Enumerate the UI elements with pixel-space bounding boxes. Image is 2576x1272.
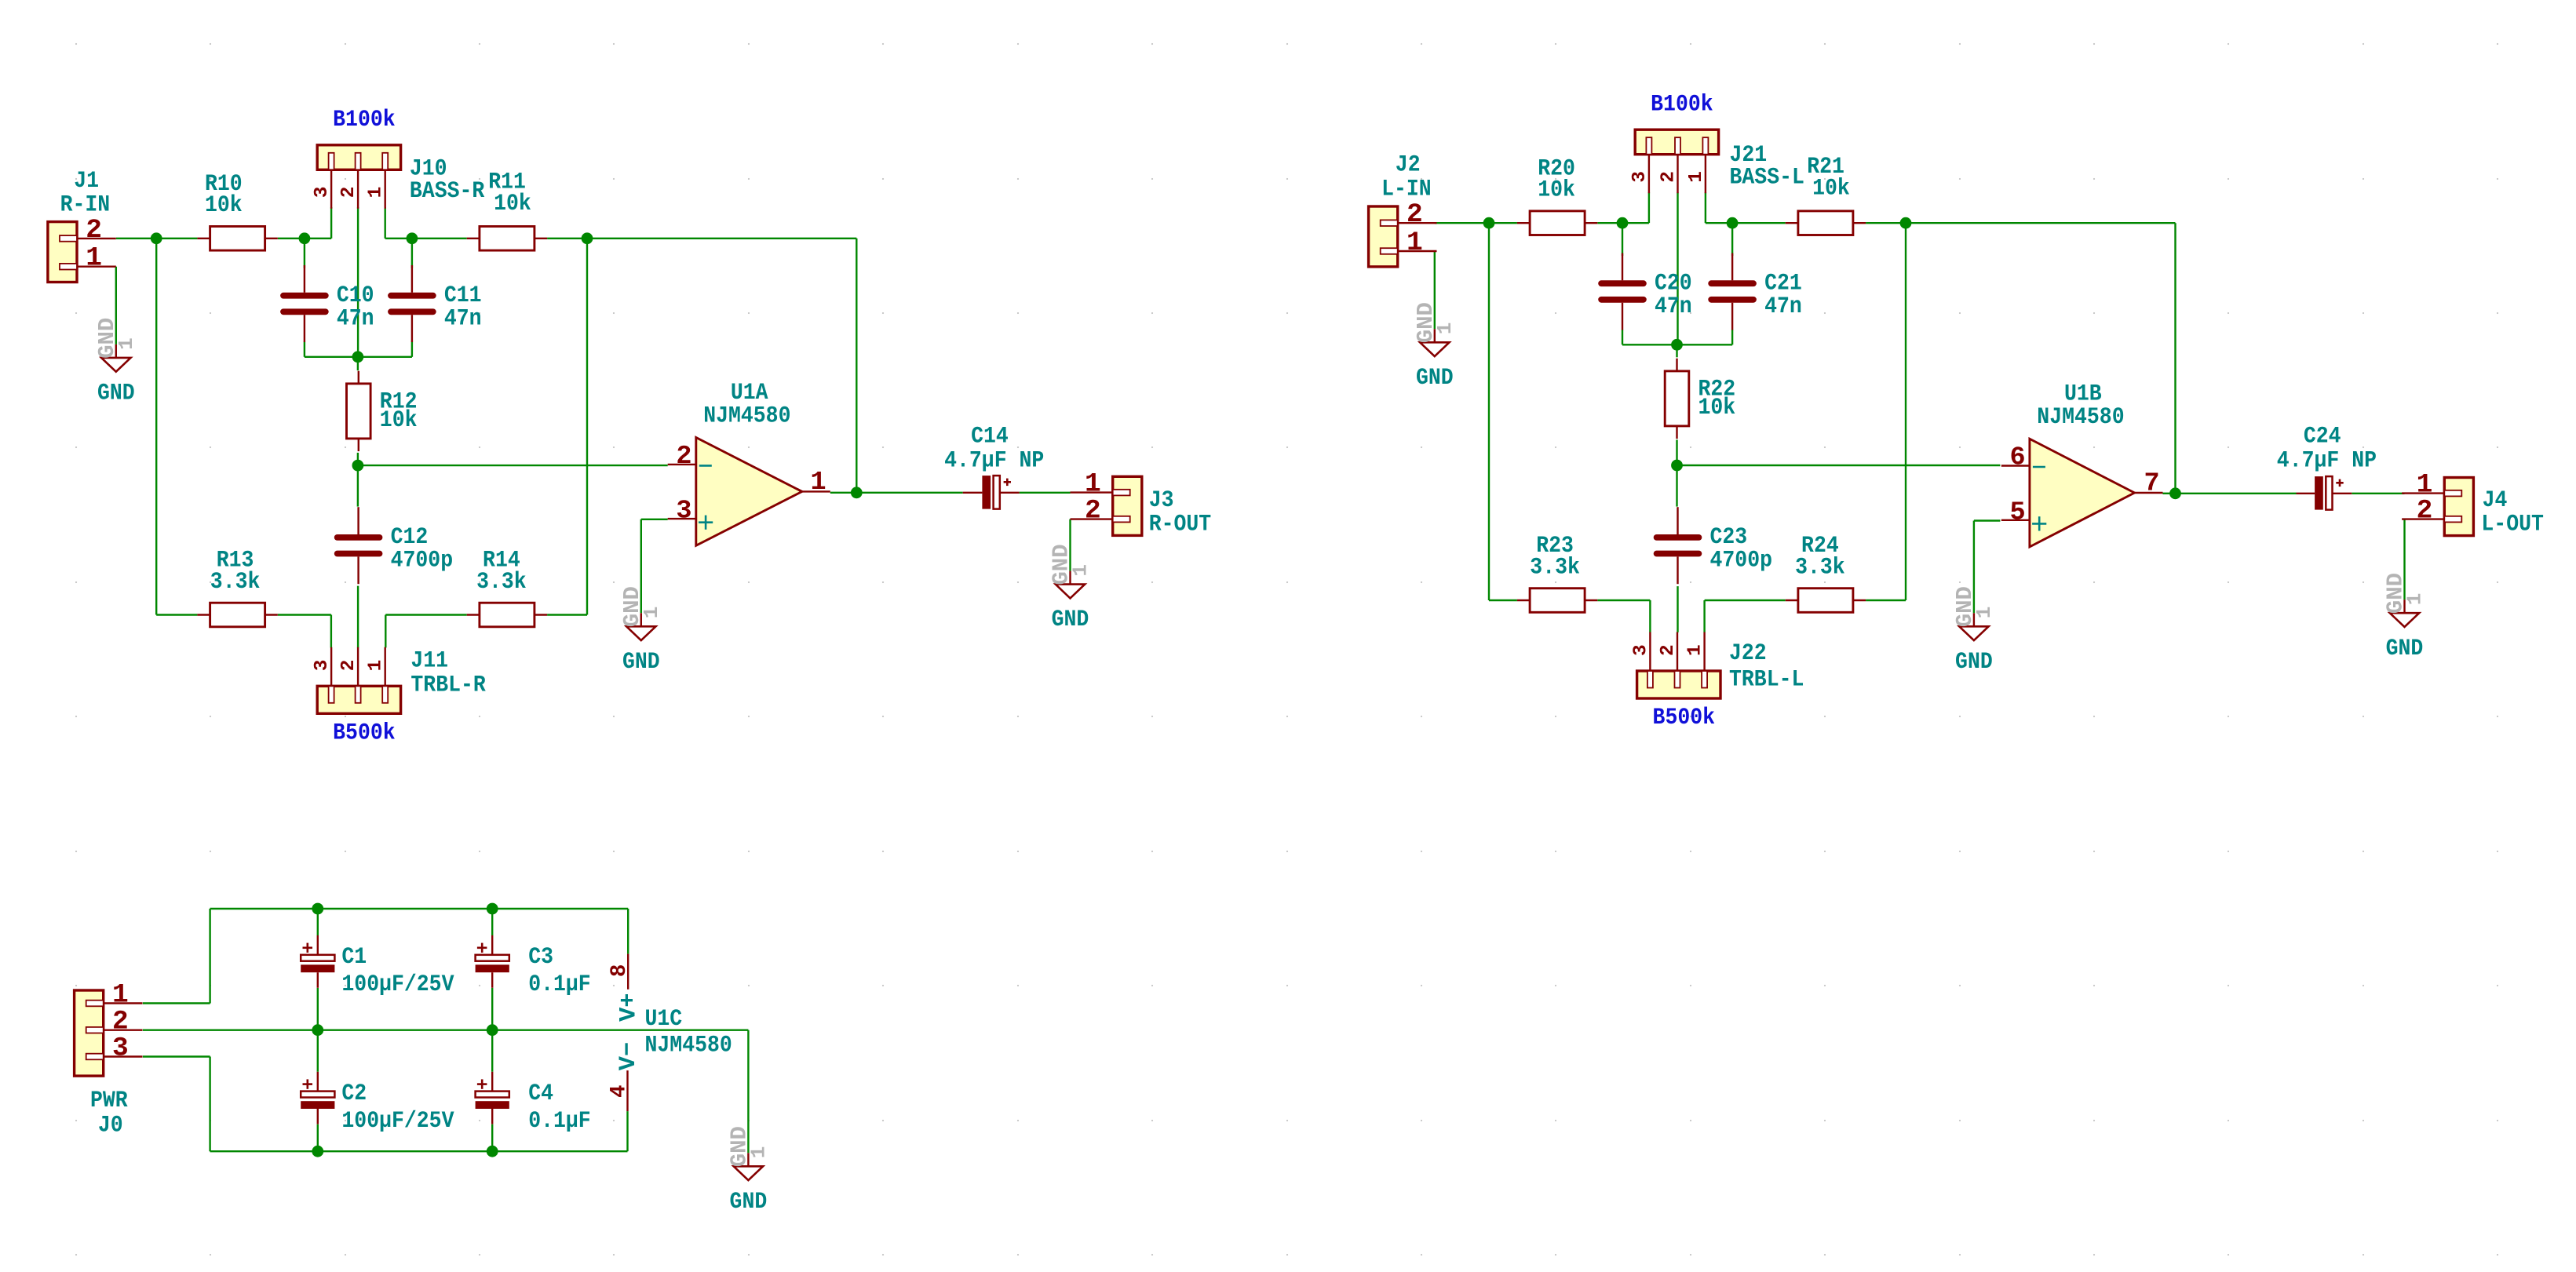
wire R13 to J11 pin3 corner [278,614,331,615]
svg-text:47n: 47n [444,305,482,332]
wire R21 to junction B2 [1866,222,1906,224]
svg-text:10k: 10k [380,406,418,433]
svg-text:47n: 47n [337,305,374,332]
svg-text:NJM4580: NJM4580 [703,403,790,429]
junction D2 at output [2169,487,2181,499]
svg-text:J3: J3 [1149,487,1174,513]
svg-text:8: 8 [608,964,632,978]
svg-text:1: 1 [2403,593,2427,606]
svg-text:GND: GND [622,648,660,675]
svg-text:47n: 47n [1655,293,1692,319]
wire junction D to C14 [856,492,962,494]
resistor R23 3.3k [1517,600,1530,601]
wire pin8 riser green [627,909,629,954]
svg-text:2: 2 [86,215,102,246]
svg-text:C4: C4 [528,1080,553,1106]
svg-text:10k: 10k [205,191,243,218]
svg-text:3.3k: 3.3k [1530,553,1580,580]
wire cap junction to R12 [357,357,359,370]
wire bus left segment [156,614,197,615]
wire J4 pin2 to ground [2403,519,2405,600]
svg-text:C2: C2 [341,1080,367,1106]
potentiometer connector J22 (J22) [1637,671,1720,698]
wire C10 vertical [304,239,305,268]
wire C10 junction to pot pin3 corner [305,238,331,239]
junction at C10 [299,232,311,244]
junction C1 bottom [312,1024,323,1036]
junction C2 bottom [312,1146,323,1157]
wire J0 pin1 to corner up [143,1002,210,1004]
svg-text:2: 2 [2417,496,2433,527]
wire junction C2 to U1B pin6 [1677,465,2001,466]
svg-text:2: 2 [1658,171,1680,183]
wire J2 pin1 to ground [1434,251,1436,329]
U1A plus sign [699,521,713,523]
svg-text:B100k: B100k [333,106,396,133]
wire pot pin1 corner to C11 junction [385,207,386,239]
resistor R21 10k [1786,222,1798,224]
svg-text:3: 3 [112,1033,129,1064]
svg-text:0.1µF: 0.1µF [528,1107,591,1134]
wire pot pin1 corner to C21 junction [1705,192,1706,223]
svg-text:3: 3 [312,660,333,672]
svg-text:1: 1 [640,607,663,619]
svg-text:4.7µF NP: 4.7µF NP [2277,446,2377,473]
wire U1B output to junction D2 [2163,493,2176,494]
resistor R14 3.3k [467,614,480,615]
svg-text:1: 1 [366,187,387,199]
wire C12 to J11 pin2 [357,586,359,648]
svg-text:1: 1 [1972,607,1996,619]
junction C3 top [487,903,498,915]
ground GND below J2 [1434,329,1436,342]
wire bus2 left segment [1489,600,1517,601]
junction C3 bottom [487,1024,498,1036]
svg-text:3: 3 [1629,171,1651,183]
resistor R11 10k [467,238,480,239]
wire pot pin2 down to cap junction [1677,192,1678,344]
svg-text:1: 1 [1069,564,1093,577]
resistor R13 3.3k [197,614,210,615]
wire J22 pin1 corner to R24 [1703,600,1705,632]
svg-text:GND: GND [730,1188,768,1215]
svg-text:V−: V− [615,1042,642,1070]
wire cap junction horizontal [305,356,412,358]
wire C2 verticals [317,1030,319,1072]
svg-text:4: 4 [608,1084,632,1098]
capacitor C11 47n [411,265,413,293]
svg-text:1: 1 [366,660,387,672]
wire R23 to J22 pin3 corner [1597,600,1650,601]
junction A [151,232,162,244]
svg-text:2: 2 [1658,644,1679,656]
svg-text:TRBL-L: TRBL-L [1729,666,1804,693]
svg-text:1: 1 [811,468,826,498]
capacitor C3 0.1µF [491,935,493,955]
wire R14 to feedback riser [547,614,587,615]
svg-text:TRBL-R: TRBL-R [410,672,485,698]
wire R22 to junction C2 [1676,439,1677,465]
svg-text:B500k: B500k [333,720,396,746]
junction at C20 [1617,217,1629,229]
wire C21 vertical [1731,223,1733,256]
wire C3 verticals [491,909,493,935]
svg-text:J0: J0 [98,1112,123,1139]
svg-text:10k: 10k [1538,177,1575,203]
wire junction D2 to C24 [2176,493,2297,494]
svg-text:GND: GND [1052,606,1089,632]
wire C14 to J3 pin1 [1020,492,1071,494]
svg-text:J4: J4 [2483,487,2508,513]
U1C pin 4 V- [626,1070,628,1111]
svg-text:B500k: B500k [1653,704,1716,731]
op-amp U1B (U1B NJM4580) [2030,439,2135,547]
svg-text:2: 2 [1085,496,1101,527]
svg-text:2: 2 [338,660,359,672]
svg-text:V+: V+ [616,993,643,1022]
C4 plus sign [477,1083,487,1085]
svg-text:100µF/25V: 100µF/25V [341,1107,454,1134]
wire U1B pin5 to ground corner [1974,519,2001,521]
capacitor C10 47n [304,265,305,293]
svg-text:3.3k: 3.3k [1795,553,1845,580]
wire J0 pin2 middle rail [143,1029,749,1030]
svg-text:GND: GND [1416,364,1454,391]
svg-text:B100k: B100k [1651,91,1713,118]
junction C2 below R22 [1671,460,1683,472]
svg-text:100µF/25V: 100µF/25V [341,971,454,997]
svg-text:J2: J2 [1396,151,1421,178]
svg-text:4.7µF NP: 4.7µF NP [944,446,1044,473]
U1C pin 8 V+ [627,954,629,990]
svg-text:C24: C24 [2304,423,2341,450]
svg-text:R-OUT: R-OUT [1149,511,1212,538]
U1B minus sign [2033,466,2045,468]
svg-text:3: 3 [312,187,333,199]
junction below caps right [1671,339,1683,351]
ground GND below J1 [115,344,117,358]
svg-text:4700p: 4700p [1710,547,1773,574]
svg-text:C14: C14 [971,423,1009,450]
wire U1A output to junction D [830,492,857,494]
wire R10 to C10 junction [278,238,305,239]
wire cap junction horizontal [1622,344,1732,345]
C2 plus sign [303,1083,313,1085]
svg-text:5: 5 [2010,498,2026,527]
svg-text:GND: GND [97,380,135,406]
wire pin4 riser green [626,1111,628,1151]
connector J1 (J1 R-IN) [48,222,77,282]
op-amp U1A (U1A NJM4580) [696,438,802,546]
wire junction A2 to R20 [1489,222,1517,224]
wire C11 vertical [411,239,413,268]
svg-text:3.3k: 3.3k [476,568,527,595]
wire junction A2 down to bottom bus [1488,223,1490,600]
svg-text:2: 2 [1407,199,1423,230]
C1 plus sign [303,947,313,949]
resistor R12 10k [358,371,359,384]
wire U1A pin3 to ground corner [641,519,668,520]
junction at C21 [1727,217,1739,229]
wire top-right corner down to output junction [856,239,857,493]
wire J1 pin1 to ground [115,267,117,344]
svg-text:10k: 10k [1812,174,1850,201]
capacitor C23 4700p [1677,507,1678,534]
svg-text:2: 2 [338,187,359,199]
svg-text:C1: C1 [341,943,367,970]
junction A2 [1483,217,1495,229]
svg-text:L-OUT: L-OUT [2481,511,2544,538]
svg-text:1: 1 [746,1146,770,1159]
potentiometer connector J10 (J10) [317,145,400,170]
wire bottom rail [210,1150,628,1152]
junction C1 top [312,903,323,915]
svg-text:1: 1 [112,980,129,1011]
svg-text:1: 1 [1685,644,1706,656]
junction C4 bottom [487,1146,498,1157]
wire junction B to top-right corner [587,238,856,239]
svg-text:4700p: 4700p [391,547,453,574]
potentiometer connector J21 (J21) [1635,129,1718,155]
wire middle rail corner down to ground [747,1030,749,1154]
connector J3 (J3 R-OUT) [1113,476,1142,535]
junction C below R12 [352,460,364,472]
svg-text:10k: 10k [1698,394,1736,421]
svg-text:6: 6 [2010,443,2026,473]
svg-text:U1C: U1C [645,1005,683,1032]
svg-text:3.3k: 3.3k [210,568,261,595]
capacitor C20 47n [1622,253,1623,281]
ground GND below J4 [2403,600,2405,613]
svg-text:J22: J22 [1729,640,1767,666]
wire C20 vertical [1622,223,1623,256]
wire C23 to J22 pin2 [1677,586,1678,632]
connector J2 (J2 L-IN) [1369,206,1398,267]
capacitor C4 0.1µF [491,1072,493,1092]
wire C20 junction to pot pin3 corner [1622,222,1649,224]
svg-text:10k: 10k [494,190,531,217]
wire junction A to R10 [156,238,197,239]
svg-text:L-IN: L-IN [1381,175,1432,202]
junction below caps [352,351,364,363]
wire cap junction to R22 [1676,344,1677,357]
junction B2 feedback [1900,217,1912,229]
resistor R24 3.3k [1786,600,1798,601]
capacitor C1 100µF/25V [317,935,319,955]
C24 plus sign [2336,482,2343,484]
wire C4 verticals [491,1030,493,1072]
svg-text:J11: J11 [410,647,448,673]
svg-text:BASS-R: BASS-R [410,177,484,204]
wire C24 to J4 pin1 [2352,493,2404,494]
resistor R20 10k [1517,222,1530,224]
svg-text:1: 1 [1433,323,1457,335]
svg-text:7: 7 [2144,468,2160,498]
svg-text:C3: C3 [528,943,553,970]
ground GND below U1A [640,613,642,626]
wire pot pin2 down to cap junction [357,207,359,357]
svg-text:3: 3 [676,497,691,527]
wire J1 pin2 to junction A [116,238,156,239]
wire R11 to feedback junction B [547,238,587,239]
wire junction C to U1A pin2 [358,465,668,466]
wire junction C2 down to C23 [1676,465,1677,507]
wire C1 verticals [317,909,319,935]
wire corner down to output junction D2 [2174,223,2176,494]
wire J11 pin1 corner to R14 [385,615,386,648]
wire feedback riser junction B2 to bus [1905,223,1906,600]
wire J2 pin2 to junction A2 [1435,222,1489,224]
svg-text:1: 1 [1686,171,1707,183]
wire junction C down to C12 [357,465,359,507]
svg-text:47n: 47n [1764,293,1802,319]
svg-text:NJM4580: NJM4580 [2037,403,2124,430]
svg-text:3: 3 [1630,644,1651,656]
junction B feedback [582,232,593,244]
potentiometer connector J11 (J11) [317,686,400,713]
wire R12 to junction C [357,453,359,465]
wire J3 pin2 to ground [1069,519,1071,571]
capacitor C24 4.7uF NP polarized horizontal [2297,493,2315,494]
svg-text:1: 1 [1407,228,1423,258]
ground GND below J3 [1069,571,1071,585]
U1A minus sign [699,465,712,467]
svg-text:PWR: PWR [90,1087,128,1113]
wire C11 junction to R11 [412,238,467,239]
resistor R22 10k [1676,359,1677,371]
junction D at output [851,487,863,498]
svg-text:2: 2 [676,442,691,472]
wire feedback riser junction B to bus [586,239,588,615]
connector J0 (J0 PWR) [75,990,104,1076]
svg-text:1: 1 [86,243,102,274]
capacitor C2 100µF/25V [317,1072,319,1092]
junction at C11 [407,232,418,244]
wire J0 pin3 to corner down [143,1055,210,1057]
wire junction B2 to top-right corner [1906,222,2176,224]
wire R24 to feedback riser [1866,600,1906,601]
wire R20 to C20 junction [1597,222,1622,224]
svg-text:J1: J1 [74,167,99,194]
C14 plus sign [1004,481,1011,483]
capacitor C21 47n [1731,253,1733,281]
svg-text:BASS-L: BASS-L [1730,164,1804,191]
svg-text:GND: GND [1955,648,1993,675]
svg-text:0.1µF: 0.1µF [528,971,591,997]
capacitor C14 4.7uF NP polarized horizontal [963,492,983,494]
svg-text:R-IN: R-IN [60,191,111,217]
wire top rail [210,908,629,909]
svg-text:1: 1 [115,337,138,350]
svg-text:GND: GND [2386,635,2424,662]
ground GND below U1B [1973,613,1975,626]
ground GND below U1C [747,1153,749,1166]
connector J4 (J4 L-OUT) [2444,478,2473,536]
capacitor C12 4700p [357,507,359,534]
U1B plus sign [2032,523,2046,525]
C3 plus sign [477,947,487,949]
wire junction A down to bottom bus [155,239,157,615]
resistor R10 10k [197,238,210,239]
wire C21 junction to R21 [1732,222,1786,224]
svg-text:NJM4580: NJM4580 [645,1032,732,1059]
